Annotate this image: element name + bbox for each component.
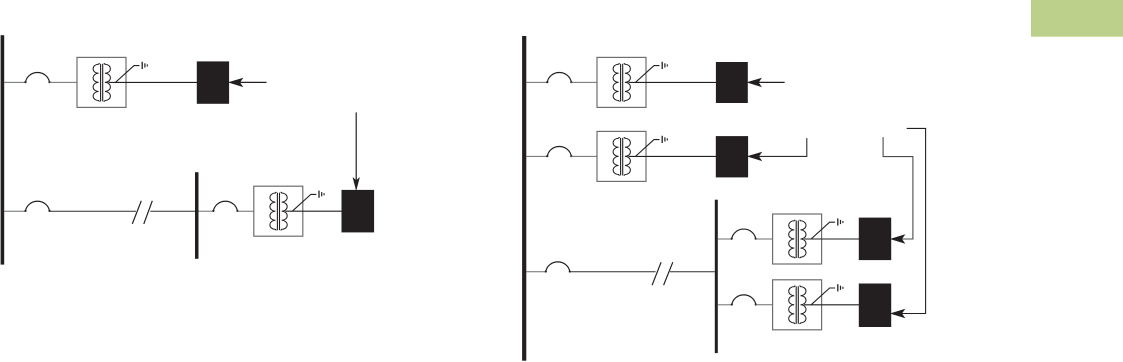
wire: transformer T1 secondary to load	[109, 81, 198, 83]
transformer T1 (left top)	[77, 57, 147, 107]
wire: sub-bus to breaker R3B	[718, 304, 732, 306]
breaker hump L2	[24, 201, 50, 212]
break slash 2	[664, 262, 673, 285]
main bus (left)	[1, 35, 5, 264]
wire: breaker to transformer R1	[571, 81, 597, 83]
load block L2	[342, 190, 375, 233]
arrow into load R1	[748, 79, 761, 87]
wire: breaker to transformer R3A	[756, 238, 773, 240]
wire: transformer T6 secondary to load	[804, 304, 859, 306]
breaker hump R3A	[731, 229, 757, 240]
sub bus (left diagram)	[195, 172, 199, 259]
transformer T2 (left bottom)	[254, 186, 324, 236]
break slash 1	[132, 201, 141, 224]
green corner tab	[1031, 0, 1123, 37]
sub bus (right diagram)	[715, 200, 718, 353]
wire: breaker to transformer L1	[50, 81, 78, 83]
arrow into load R3A	[892, 235, 905, 243]
wire: breaker to transformer T2	[237, 210, 253, 212]
transformer T3 (right top)	[597, 57, 667, 107]
breaker hump R2	[546, 146, 572, 157]
wire: breaker to transformer R3B	[756, 304, 773, 306]
wire: sub-bus to breaker R3A	[718, 238, 732, 240]
breaker hump R3B	[731, 295, 757, 306]
transformer T5 (right sub top)	[773, 214, 843, 264]
breaker hump R3	[545, 262, 571, 273]
load block R3A	[859, 218, 891, 261]
transformer T4 (right second)	[597, 131, 667, 181]
feeder wire resumes to sub-bus	[150, 210, 195, 212]
break slash 1	[652, 262, 661, 285]
feeder wire resumes to sub-bus	[670, 271, 715, 273]
wire: bus to breaker R2	[526, 155, 547, 157]
breaker hump R1	[546, 72, 572, 83]
wire: transformer T4 secondary to load	[629, 155, 717, 157]
arrow into load R3B	[892, 310, 905, 318]
wire: breaker to transformer R2	[571, 155, 597, 157]
transformer T6 (right sub bottom)	[773, 280, 843, 330]
long feeder wire with break marks	[570, 271, 656, 273]
arrow into load L1	[230, 79, 243, 87]
breaker hump L1	[24, 72, 50, 83]
load block R3B	[859, 284, 891, 328]
wire: transformer T2 secondary to load	[285, 210, 342, 212]
wire: sub-bus to breaker L2b	[199, 210, 214, 212]
wire: transformer T5 secondary to load	[804, 238, 859, 240]
load block R1	[716, 62, 748, 103]
continuation bracket wire into load R3A	[883, 137, 913, 239]
break slash 2	[144, 201, 153, 224]
wire: bus to breaker, feeder L1	[4, 81, 25, 83]
wire: bus to breaker R3 feeder	[526, 271, 546, 273]
wire: transformer T3 secondary to load	[629, 81, 717, 83]
vertical arrow into load L2	[355, 112, 357, 180]
wire: bus to breaker R1	[526, 81, 547, 83]
continuation bracket wire into load R3B	[901, 128, 926, 313]
breaker hump L2b	[212, 201, 238, 212]
wire: bus to breaker, feeder L2	[4, 210, 25, 212]
load block L1	[197, 61, 229, 103]
main bus (right)	[522, 36, 526, 361]
long feeder wire with break marks	[50, 210, 137, 212]
load block R2	[716, 136, 748, 177]
arrow into load R2 from continuation stub	[749, 153, 762, 161]
